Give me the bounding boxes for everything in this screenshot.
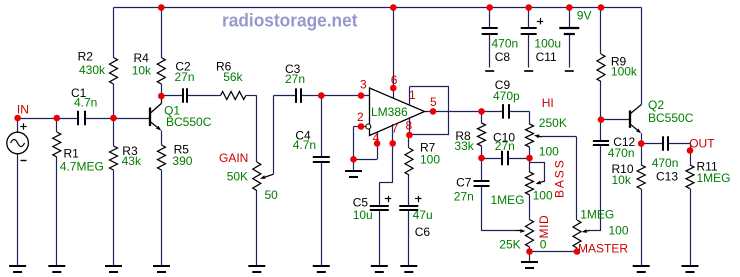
svg-text:IN: IN xyxy=(17,103,29,117)
svg-text:C8: C8 xyxy=(495,50,511,64)
svg-text:LM386: LM386 xyxy=(371,105,408,119)
svg-text:R1: R1 xyxy=(64,147,80,161)
svg-text:R2: R2 xyxy=(78,50,94,64)
svg-text:4.7MEG: 4.7MEG xyxy=(60,160,104,174)
svg-text:27n: 27n xyxy=(454,190,474,204)
svg-text:470n: 470n xyxy=(652,156,679,170)
svg-text:BC550C: BC550C xyxy=(648,111,694,125)
svg-text:MASTER: MASTER xyxy=(578,242,628,256)
svg-text:Q2: Q2 xyxy=(648,98,664,112)
svg-text:GAIN: GAIN xyxy=(219,151,248,165)
svg-text:470n: 470n xyxy=(492,37,519,51)
svg-text:3: 3 xyxy=(360,78,367,92)
svg-text:100: 100 xyxy=(609,224,629,238)
svg-text:1: 1 xyxy=(409,88,416,102)
svg-text:2: 2 xyxy=(357,110,364,124)
svg-text:5: 5 xyxy=(430,95,437,109)
svg-text:470p: 470p xyxy=(493,89,520,103)
svg-text:4: 4 xyxy=(373,131,380,145)
svg-text:C6: C6 xyxy=(415,225,431,239)
svg-text:100k: 100k xyxy=(611,65,638,79)
svg-text:1MEG: 1MEG xyxy=(491,193,525,207)
svg-text:HI: HI xyxy=(542,96,554,110)
svg-text:470n: 470n xyxy=(608,146,635,160)
svg-text:7: 7 xyxy=(392,122,399,136)
svg-text:100u: 100u xyxy=(534,37,561,51)
svg-text:47u: 47u xyxy=(413,208,433,222)
svg-text:10k: 10k xyxy=(612,173,632,187)
svg-text:10k: 10k xyxy=(132,64,152,78)
svg-text:100: 100 xyxy=(539,145,559,159)
svg-text:27n: 27n xyxy=(285,72,305,86)
svg-text:25K: 25K xyxy=(499,238,520,252)
svg-text:C13: C13 xyxy=(656,170,678,184)
svg-text:C7: C7 xyxy=(456,176,472,190)
svg-text:50: 50 xyxy=(265,188,279,202)
svg-text:27n: 27n xyxy=(175,70,195,84)
svg-text:1MEG: 1MEG xyxy=(697,171,731,185)
svg-text:430k: 430k xyxy=(79,63,106,77)
svg-text:1MEG: 1MEG xyxy=(580,208,614,222)
svg-text:4.7n: 4.7n xyxy=(293,138,316,152)
svg-text:43k: 43k xyxy=(122,154,142,168)
svg-text:4.7n: 4.7n xyxy=(74,96,97,110)
svg-text:radiostorage.net: radiostorage.net xyxy=(222,10,358,31)
svg-text:50K: 50K xyxy=(227,170,248,184)
svg-text:27n: 27n xyxy=(495,139,515,153)
svg-text:0: 0 xyxy=(540,238,547,252)
svg-text:MID: MID xyxy=(537,215,551,239)
svg-text:BC550C: BC550C xyxy=(166,115,212,129)
svg-text:6: 6 xyxy=(391,73,398,87)
svg-text:8: 8 xyxy=(406,119,413,133)
svg-text:BASS: BASS xyxy=(553,158,567,198)
svg-text:33k: 33k xyxy=(454,139,474,153)
svg-text:56k: 56k xyxy=(223,70,243,84)
svg-text:OUT: OUT xyxy=(689,137,715,151)
svg-text:C11: C11 xyxy=(536,50,557,64)
svg-text:100: 100 xyxy=(420,153,440,167)
svg-text:10u: 10u xyxy=(353,208,373,222)
svg-text:250K: 250K xyxy=(539,116,567,130)
svg-text:390: 390 xyxy=(172,154,192,168)
svg-text:9V: 9V xyxy=(577,9,592,23)
svg-text:100: 100 xyxy=(533,189,553,203)
